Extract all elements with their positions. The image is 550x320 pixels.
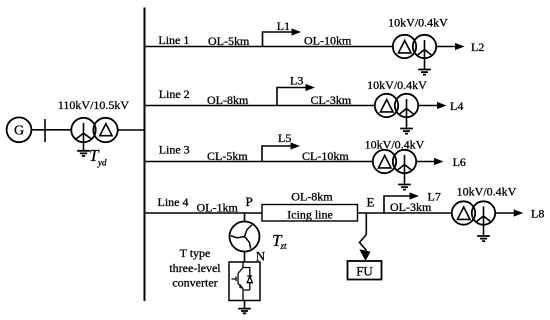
node branch L1: [263, 32, 293, 47]
bus bar: [144, 8, 146, 302]
transformer T1 delta circle: [393, 35, 416, 58]
svg-text:P: P: [246, 194, 253, 209]
node branch L3: [277, 88, 306, 106]
wire Tzt to converter: [244, 252, 246, 263]
svg-text:110kV/10.5kV: 110kV/10.5kV: [58, 98, 130, 112]
svg-text:converter: converter: [172, 276, 217, 290]
ground T3: [398, 185, 411, 190]
svg-text:OL-5km: OL-5km: [208, 34, 250, 48]
transistor Q1 IGBT: [232, 262, 253, 301]
arrowhead L3: [306, 84, 316, 91]
ground T4: [477, 236, 490, 241]
transformer T2 wye circle: [395, 94, 418, 117]
svg-text:L4: L4: [450, 99, 463, 113]
delta symbol Tyd: [100, 124, 112, 136]
svg-text:L1: L1: [277, 19, 290, 33]
svg-text:yd: yd: [97, 157, 107, 167]
svg-text:L5: L5: [278, 131, 291, 145]
svg-text:E: E: [367, 195, 375, 210]
arrowhead L5: [291, 142, 301, 149]
ground Tyd neutral: [77, 151, 90, 156]
delta symbol T1: [398, 41, 411, 53]
svg-text:10kV/0.4kV: 10kV/0.4kV: [457, 185, 517, 199]
wye symbol T2: [400, 99, 414, 128]
transformer T3 wye circle: [393, 150, 416, 173]
svg-text:10kV/0.4kV: 10kV/0.4kV: [365, 138, 425, 152]
ground converter: [238, 309, 251, 314]
wire converter to ground: [244, 301, 246, 309]
arrowhead L2: [455, 43, 465, 50]
svg-text:L3: L3: [290, 74, 303, 88]
icing line box: [262, 205, 358, 222]
wire Line 4 right: [358, 212, 452, 214]
svg-text:Line 4: Line 4: [158, 195, 189, 209]
node branch L5: [262, 146, 291, 162]
svg-text:Line 1: Line 1: [158, 33, 189, 47]
svg-text:three-level: three-level: [169, 261, 221, 275]
svg-text:OL-1km: OL-1km: [197, 200, 239, 214]
wire to L4: [418, 105, 438, 107]
svg-text:10kV/0.4kV: 10kV/0.4kV: [388, 15, 448, 29]
wire G to transformer: [31, 129, 71, 131]
svg-text:Line 2: Line 2: [159, 87, 190, 101]
wire to L8: [495, 212, 514, 214]
transformer T4 wye circle: [472, 201, 495, 224]
svg-text:CL-3km: CL-3km: [311, 93, 352, 107]
transformer T1 wye circle: [413, 35, 436, 58]
transformer U1 Tyd secondary circle (delta): [93, 118, 117, 142]
svg-text:G: G: [14, 124, 24, 139]
svg-text:CL-10km: CL-10km: [302, 149, 349, 163]
arrowhead L7: [410, 192, 420, 199]
fault zigzag arrow: [360, 235, 367, 251]
wire Line 3: [145, 161, 374, 163]
arrowhead fault: [359, 249, 370, 261]
transformer U1 Tyd primary circle (wye): [71, 118, 95, 142]
ground T1: [418, 70, 431, 75]
wire Line 4 left: [145, 212, 263, 214]
svg-text:FU: FU: [356, 263, 373, 278]
tick mark on wire: [44, 119, 46, 142]
svg-text:10kV/0.4kV: 10kV/0.4kV: [367, 78, 427, 92]
svg-text:Icing line: Icing line: [287, 207, 333, 221]
transformer T2 delta circle: [375, 94, 398, 117]
wire Line 1: [145, 46, 393, 48]
svg-text:L2: L2: [471, 40, 484, 54]
svg-text:CL-5km: CL-5km: [207, 149, 248, 163]
wire to L2: [436, 46, 456, 48]
arrowhead L8: [514, 209, 524, 216]
svg-text:OL-8km: OL-8km: [207, 93, 249, 107]
svg-text:zt: zt: [280, 241, 288, 251]
node branch L7: [384, 196, 410, 213]
transformer T3 delta circle: [373, 150, 396, 173]
wire P down to Tzt: [244, 213, 246, 222]
wye symbol Tyd: [75, 123, 92, 151]
delta symbol T2: [380, 100, 393, 112]
transformer Tzt circle: [230, 222, 260, 252]
wire transformer to bus: [118, 129, 145, 131]
delta symbol T4: [457, 207, 470, 219]
transformer T4 delta circle: [452, 201, 475, 224]
diode D1: [243, 268, 252, 291]
arrowhead L4: [437, 102, 447, 109]
delta symbol T3: [378, 156, 391, 168]
svg-text:OL-3km: OL-3km: [390, 200, 432, 214]
fuse FU box: [348, 261, 382, 280]
wire E down: [365, 213, 367, 235]
svg-text:Line 3: Line 3: [159, 143, 190, 157]
ground T2: [400, 129, 413, 134]
arrowhead L6: [434, 158, 444, 165]
svg-text:L6: L6: [453, 155, 466, 169]
svg-text:OL-8km: OL-8km: [291, 189, 333, 203]
wire to L6: [416, 161, 435, 163]
wye symbol T4: [477, 207, 491, 236]
zigzag winding symbol Tzt: [231, 225, 255, 249]
arrowhead L1: [292, 28, 302, 35]
wye symbol T1: [418, 40, 432, 69]
svg-text:OL-10km: OL-10km: [304, 33, 352, 47]
wire Line 2: [145, 105, 376, 107]
svg-text:L8: L8: [531, 207, 544, 221]
converter box: [229, 262, 260, 301]
svg-text:T type: T type: [180, 246, 211, 260]
wye symbol T3: [398, 155, 412, 184]
generator G: [7, 117, 32, 142]
